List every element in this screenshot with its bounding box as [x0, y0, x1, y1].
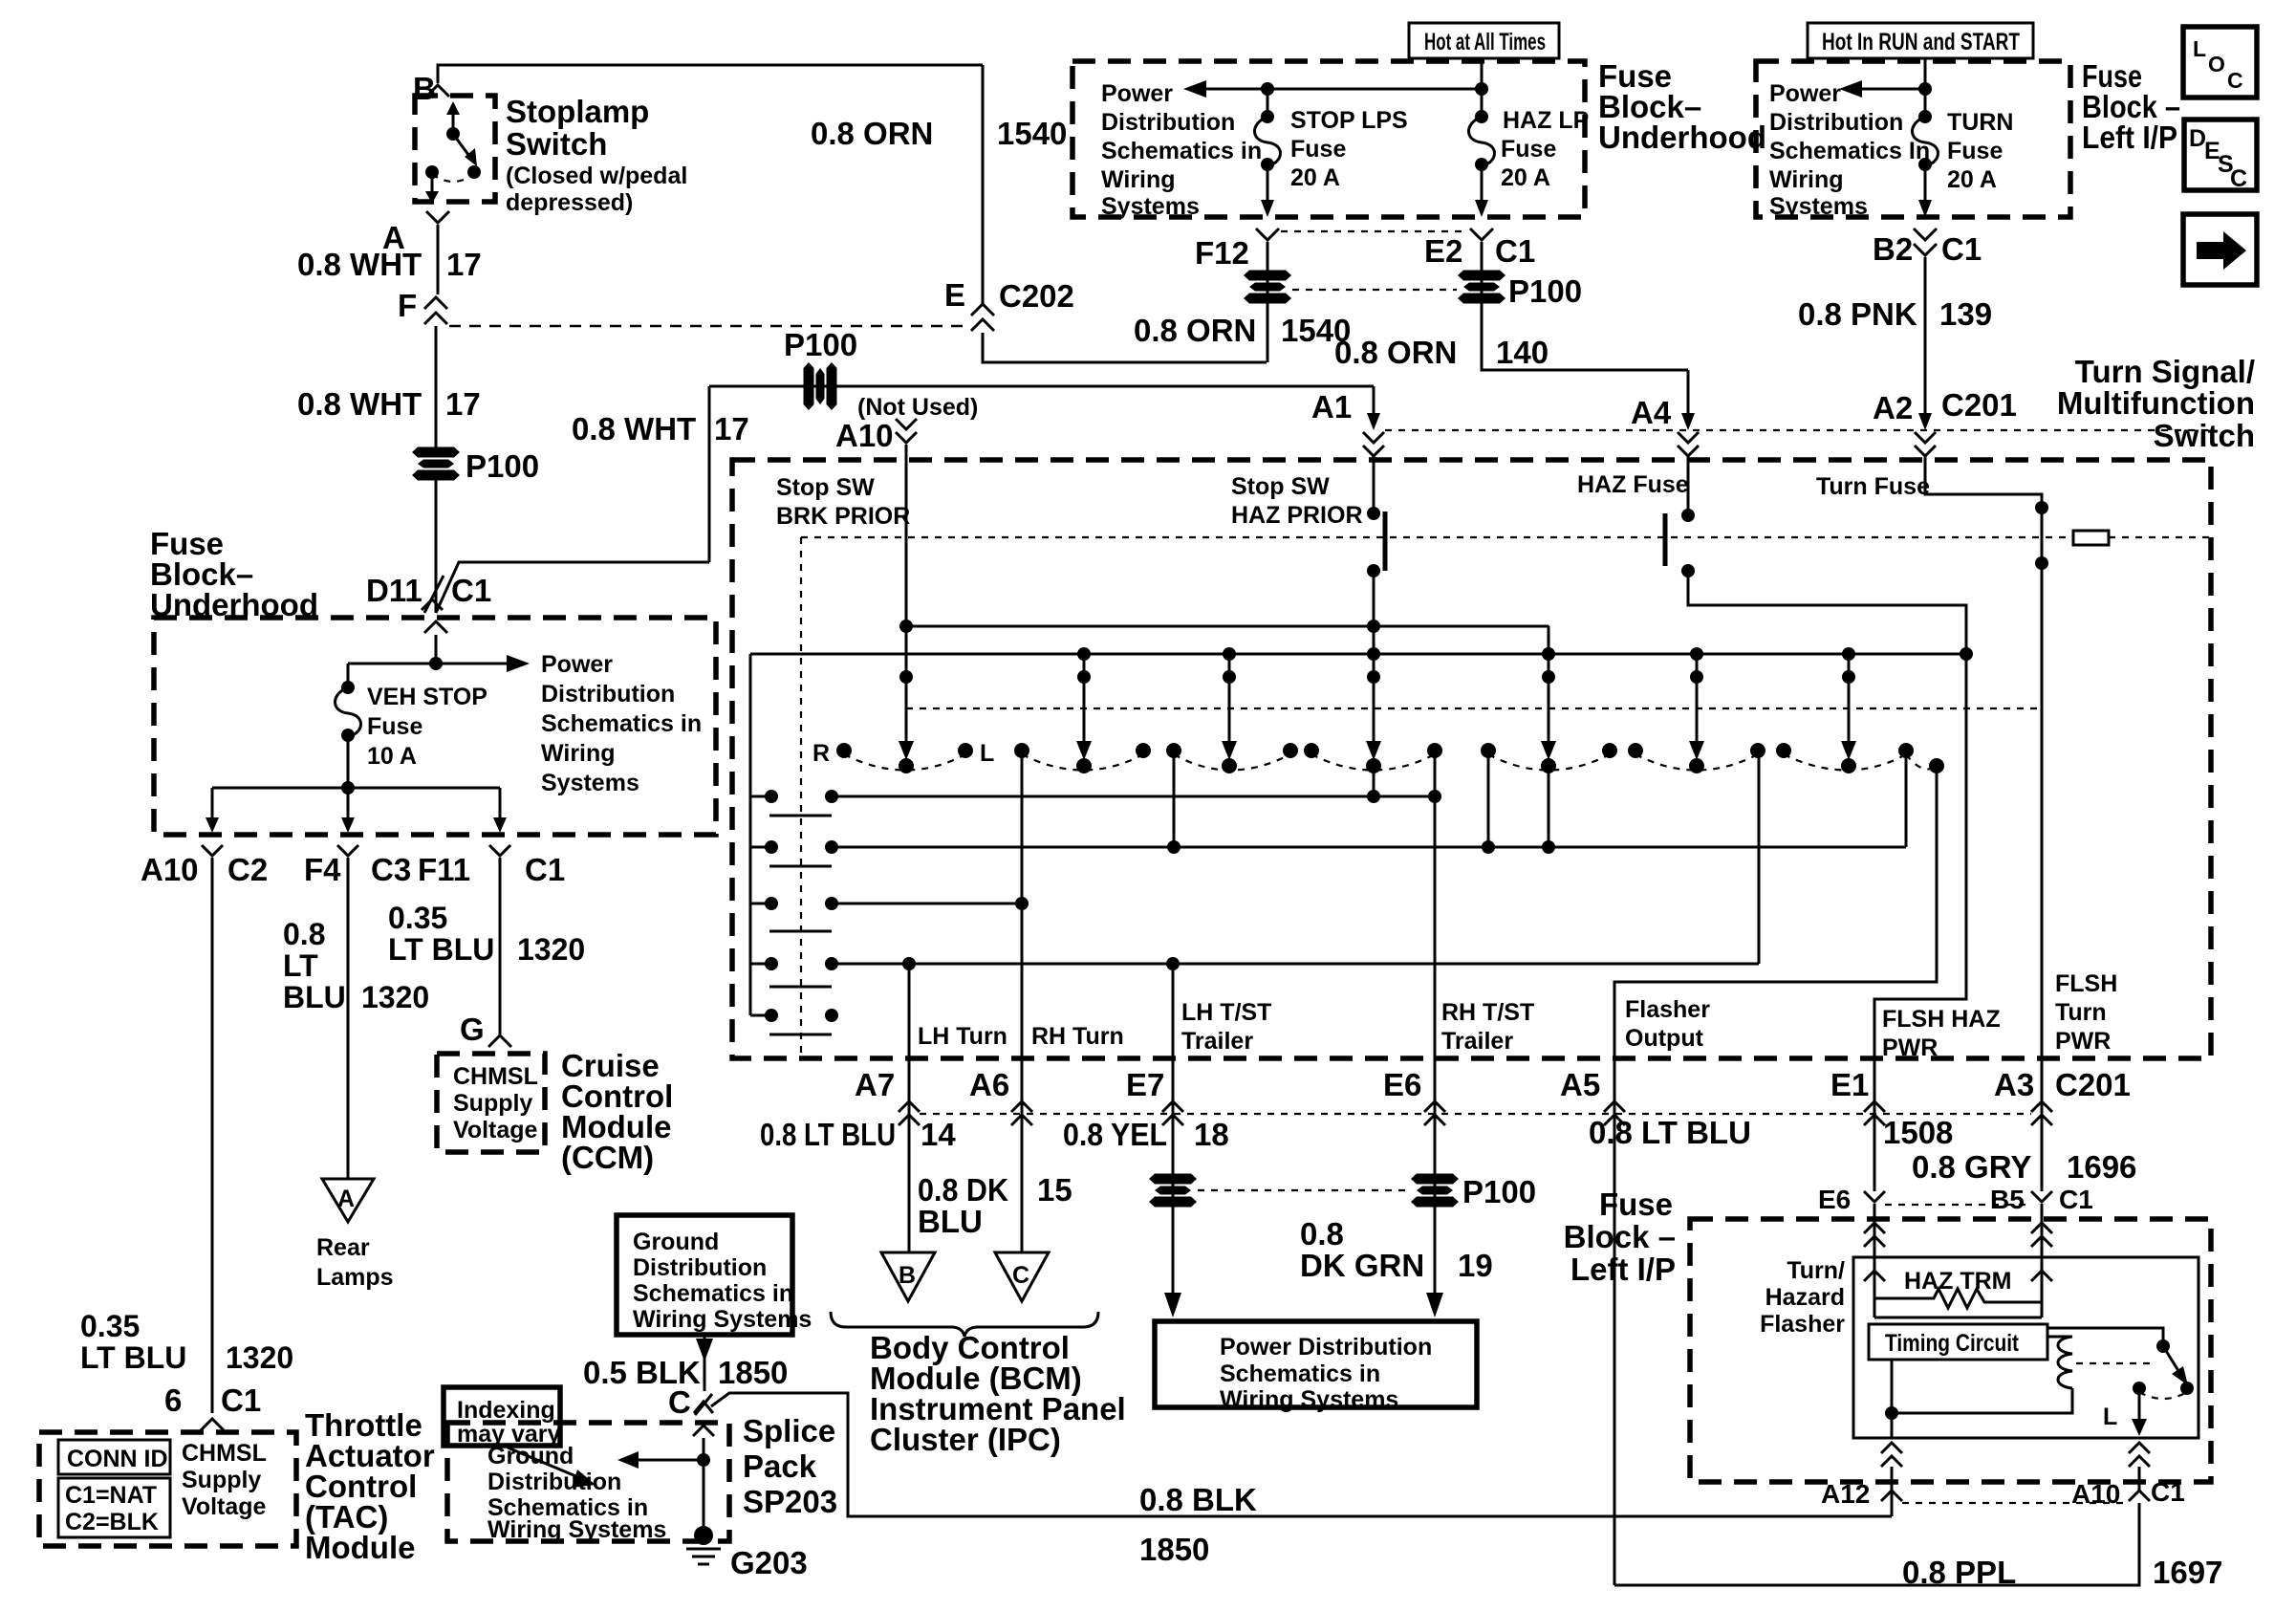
svg-text:Hazard: Hazard — [1765, 1284, 1845, 1311]
svg-text:18: 18 — [1194, 1117, 1229, 1152]
svg-text:15: 15 — [1037, 1172, 1072, 1208]
svg-text:Hot In RUN and START: Hot In RUN and START — [1822, 29, 2020, 55]
Hot at All Times box — [1409, 23, 1559, 58]
wafer left feed vertical — [749, 654, 752, 1015]
svg-text:Wiring Systems: Wiring Systems — [487, 1516, 666, 1543]
svg-text:P100: P100 — [784, 327, 857, 362]
fuse block left IP box (flasher) — [1690, 1219, 2211, 1482]
svg-text:P100: P100 — [1508, 273, 1582, 309]
indexing may vary box — [444, 1387, 560, 1446]
connector chevrons A10 switch — [896, 419, 917, 429]
svg-text:Distribution: Distribution — [1101, 109, 1235, 136]
triangle B — [881, 1252, 935, 1301]
wire E down and right to F12 leg — [983, 333, 1267, 362]
indexing arrow — [508, 1448, 585, 1480]
haz trm resistor — [1874, 1283, 2042, 1308]
flasher switch travel arc — [2139, 1392, 2187, 1399]
power distribution arrow (IP) — [1862, 88, 1925, 91]
connector A4 arrow and chevrons — [1681, 413, 1695, 430]
svg-text:FLSH: FLSH — [2055, 970, 2117, 997]
wafer row A stub and dots — [750, 795, 771, 798]
svg-text:HAZ Fuse: HAZ Fuse — [1577, 471, 1689, 498]
grommet P100 on stoplamp wire — [412, 447, 460, 481]
svg-text:C2: C2 — [227, 852, 268, 887]
riser contact to row D x=1840 — [1758, 751, 1761, 964]
svg-text:0.35: 0.35 — [80, 1309, 140, 1343]
wafer row D stub and dots — [750, 963, 771, 966]
svg-text:A2: A2 — [1873, 390, 1913, 425]
svg-text:0.8 YEL: 0.8 YEL — [1063, 1117, 1167, 1152]
svg-text:BLU: BLU — [283, 980, 346, 1014]
wire 0.8 BLK 1850 run — [711, 1393, 1892, 1516]
wire B vertical down to E — [982, 65, 985, 304]
stoplamp switch arm — [453, 134, 471, 159]
brace BCM — [831, 1312, 1098, 1337]
svg-text:Trailer: Trailer — [1181, 1028, 1253, 1055]
connector chevron F12 — [1256, 229, 1279, 240]
svg-text:Hot at All Times: Hot at All Times — [1424, 29, 1546, 55]
turn fuse actuator rect — [2073, 531, 2109, 545]
svg-text:C1: C1 — [1941, 231, 1982, 267]
svg-text:BRK PRIOR: BRK PRIOR — [776, 503, 910, 530]
svg-text:FLSH HAZ: FLSH HAZ — [1882, 1006, 2001, 1033]
splice wire down — [703, 1438, 705, 1530]
grommet P100 on branch wire — [804, 362, 837, 410]
junction dot turn fuse — [1918, 82, 1932, 96]
turn hazard flasher solid box — [1853, 1257, 2199, 1438]
svg-text:Schematics in: Schematics in — [1220, 1361, 1380, 1387]
svg-text:Schematics in: Schematics in — [1101, 138, 1262, 164]
riser contact to row B x=1228 — [1173, 751, 1176, 847]
svg-text:1320: 1320 — [226, 1340, 293, 1375]
svg-text:PWR: PWR — [1882, 1034, 1938, 1061]
forward arrow box — [2183, 214, 2257, 285]
TAC module dashed box — [39, 1432, 296, 1546]
svg-text:Power: Power — [541, 651, 613, 678]
haz fuse bar — [1663, 513, 1668, 566]
svg-text:depressed): depressed) — [506, 189, 633, 216]
contact arm arrow x=1934 — [1848, 654, 1851, 753]
svg-text:Switch: Switch — [506, 126, 607, 162]
svg-text:Fuse: Fuse — [1599, 1186, 1673, 1222]
svg-text:C: C — [2230, 165, 2247, 192]
svg-text:(Closed w/pedal: (Closed w/pedal — [506, 163, 687, 189]
connector C1 dashed (flasher bottom) — [1902, 1502, 2127, 1504]
svg-text:0.8 PNK: 0.8 PNK — [1798, 296, 1917, 332]
arrow dots y=708 — [899, 670, 913, 684]
svg-text:0.8 LT BLU: 0.8 LT BLU — [1589, 1115, 1751, 1150]
svg-text:E6: E6 — [1818, 1185, 1851, 1214]
power distribution reference box (bottom) — [1155, 1321, 1477, 1407]
junction dot haz lp — [1475, 82, 1488, 96]
wire A6 output from row C — [1021, 903, 1024, 1058]
TURN fuse — [1918, 110, 1932, 123]
svg-text:RH Turn: RH Turn — [1031, 1023, 1124, 1050]
connector chevrons F11 — [489, 845, 510, 856]
LOC box — [2183, 27, 2257, 98]
svg-text:6: 6 — [164, 1382, 182, 1418]
wire L leg to block edge — [2138, 1467, 2141, 1491]
svg-text:A10: A10 — [141, 852, 199, 887]
connector chevrons A7 — [908, 1058, 911, 1138]
svg-text:Indexing: Indexing — [457, 1397, 555, 1424]
Hot In RUN and START box — [1808, 23, 2033, 58]
svg-text:E1: E1 — [1830, 1067, 1869, 1102]
CONN ID box — [58, 1440, 170, 1474]
svg-text:Trailer: Trailer — [1441, 1028, 1513, 1055]
svg-text:0.8 DK: 0.8 DK — [918, 1172, 1008, 1208]
svg-text:Turn/: Turn/ — [1787, 1257, 1845, 1284]
wire timing to switch pivot — [2047, 1328, 2163, 1342]
svg-text:BLU: BLU — [918, 1204, 983, 1239]
svg-text:A10: A10 — [835, 418, 894, 453]
wire A5 down to PPL run — [1614, 1138, 1616, 1585]
svg-text:C1: C1 — [451, 573, 491, 608]
coil — [2047, 1337, 2072, 1388]
stationary contact dots — [836, 743, 852, 758]
svg-text:0.8 BLK: 0.8 BLK — [1139, 1482, 1257, 1517]
svg-text:F: F — [398, 288, 417, 323]
wire B5 into flasher — [2041, 1204, 2044, 1298]
mechanical dashed coil to switch — [2076, 1362, 2153, 1364]
svg-text:LH T/ST: LH T/ST — [1181, 999, 1271, 1026]
svg-text:Block –: Block – — [1564, 1219, 1676, 1254]
chevron E6 at flasher box top — [1864, 1271, 1885, 1281]
svg-text:1850: 1850 — [1139, 1532, 1209, 1567]
connector F chevrons — [424, 297, 447, 309]
svg-text:C: C — [668, 1384, 691, 1420]
svg-text:0.8 ORN: 0.8 ORN — [1334, 335, 1457, 370]
svg-text:A7: A7 — [855, 1067, 895, 1102]
connector chevron B — [426, 85, 449, 97]
svg-text:Left I/P: Left I/P — [2082, 120, 2177, 155]
arrow E7 into power dist — [1164, 1293, 1181, 1317]
svg-text:B2: B2 — [1873, 231, 1913, 267]
connector chevron B2 — [1914, 229, 1937, 240]
ground distribution reference box (solid) — [617, 1215, 792, 1335]
chevrons B5 inside block — [2031, 1223, 2052, 1233]
svg-text:LT: LT — [283, 948, 318, 983]
connector chevron E2 — [1470, 229, 1493, 240]
wire 0.8 PPL 1697 — [1614, 1503, 2139, 1585]
svg-text:1320: 1320 — [361, 980, 429, 1014]
svg-text:A6: A6 — [969, 1067, 1009, 1102]
svg-text:C1: C1 — [2151, 1477, 2185, 1507]
svg-text:1508: 1508 — [1883, 1115, 1953, 1150]
svg-text:L: L — [980, 740, 994, 767]
svg-text:L: L — [2193, 36, 2206, 61]
svg-text:E: E — [944, 277, 965, 313]
wire A3 down to flasher B5 — [2041, 1138, 2044, 1191]
svg-text:Lamps: Lamps — [316, 1264, 394, 1291]
grommet dashed link — [1292, 289, 1457, 291]
mechanical dashed vertical (wafer) — [800, 537, 802, 1056]
riser contact to row A x=1501 and down to E6 — [1434, 751, 1437, 796]
wire A12 leg to block edge — [1891, 1467, 1894, 1516]
connector chevrons F4 — [337, 845, 358, 856]
svg-text:Rear: Rear — [316, 1234, 370, 1261]
connector chevrons A5 — [1614, 1058, 1616, 1138]
svg-text:RH T/ST: RH T/ST — [1441, 999, 1534, 1026]
line1 brk prior to contact arm — [906, 625, 1549, 628]
grommet P100 on E7 wire — [1149, 1174, 1197, 1208]
timing circuit box — [1869, 1324, 2047, 1360]
junction dot at F4 feed — [341, 781, 355, 795]
connector chevrons A3 — [2041, 1058, 2044, 1138]
svg-text:Power: Power — [1101, 80, 1173, 107]
connector C symbol — [695, 1394, 712, 1415]
svg-text:LT BLU: LT BLU — [388, 932, 494, 967]
stoplamp switch exit arrow — [431, 172, 434, 194]
connector chevron TAC — [201, 1419, 224, 1430]
wire stoplamp branch horizontal y=404 — [709, 385, 1374, 388]
wire to power distribution arrow — [348, 663, 507, 665]
svg-text:Output: Output — [1625, 1025, 1704, 1052]
svg-text:1697: 1697 — [2153, 1555, 2222, 1590]
svg-text:Stoplamp: Stoplamp — [506, 94, 649, 129]
STOP LPS fuse — [1267, 89, 1269, 115]
svg-text:Supply: Supply — [182, 1467, 261, 1493]
svg-text:19: 19 — [1458, 1248, 1493, 1283]
svg-text:Distribution: Distribution — [487, 1469, 621, 1495]
svg-text:E2: E2 — [1424, 233, 1462, 269]
connector chevrons E7 — [1172, 1058, 1175, 1138]
connector chevrons E6 — [1434, 1058, 1437, 1138]
connector chevron E6 flasher — [1864, 1191, 1885, 1202]
wire E2 down to A4 — [1482, 242, 1688, 370]
svg-text:0.8 ORN: 0.8 ORN — [1134, 313, 1256, 348]
riser contact to row B x=1557 — [1487, 751, 1490, 847]
svg-text:Module: Module — [305, 1530, 415, 1565]
svg-text:14: 14 — [921, 1117, 956, 1152]
svg-text:A4: A4 — [1631, 395, 1672, 430]
svg-text:C1: C1 — [525, 852, 565, 887]
svg-text:TURN: TURN — [1947, 109, 2013, 136]
svg-text:HAZ LP: HAZ LP — [1503, 107, 1589, 134]
svg-text:Wiring: Wiring — [541, 740, 616, 767]
wire E7 down — [1172, 1138, 1175, 1300]
wire A10 into switch — [905, 445, 908, 753]
travel arcs dashed — [844, 754, 965, 771]
arrow A10-C2 leg — [211, 788, 214, 820]
svg-text:E6: E6 — [1383, 1067, 1421, 1102]
row C line — [832, 903, 1022, 905]
connector chevrons E1 — [1874, 1058, 1876, 1138]
svg-text:Flasher: Flasher — [1625, 996, 1710, 1023]
svg-text:D11: D11 — [366, 573, 422, 608]
stoplamp switch up arrow — [452, 111, 455, 134]
wire A1 into switch — [1373, 386, 1375, 413]
svg-text:Fuse: Fuse — [1947, 138, 2003, 164]
svg-text:Turn Fuse: Turn Fuse — [1816, 473, 1930, 500]
turn fuse wire down (A3 leg) — [2041, 508, 2044, 1058]
svg-text:10 A: 10 A — [367, 743, 417, 770]
stop sw haz prior offset bar — [1383, 512, 1388, 571]
connector A1 arrow and chevrons — [1367, 413, 1380, 430]
DESC box — [2184, 120, 2257, 190]
flasher internal bus — [1874, 1317, 2042, 1319]
wire A4 into switch — [1687, 370, 1690, 413]
svg-text:B5: B5 — [1990, 1185, 2025, 1214]
triangle C — [995, 1252, 1049, 1301]
chevron below C into splice box — [693, 1426, 714, 1436]
svg-text:CHMSL: CHMSL — [453, 1063, 538, 1090]
svg-text:Schematics in: Schematics in — [541, 710, 702, 737]
connector chevron below D11 — [424, 621, 447, 633]
svg-text:Distribution: Distribution — [1769, 109, 1903, 136]
connector C1 dashed (flasher) — [1885, 1204, 2031, 1206]
svg-text:Voltage: Voltage — [453, 1117, 538, 1143]
svg-text:A12: A12 — [1821, 1479, 1870, 1509]
svg-text:A5: A5 — [1560, 1067, 1600, 1102]
svg-text:Underhood: Underhood — [1598, 120, 1766, 155]
svg-text:139: 139 — [1939, 296, 1992, 332]
fuse block left IP box (top) — [1756, 61, 2070, 217]
connector chevrons A6 — [1021, 1058, 1024, 1138]
svg-text:0.8 WHT: 0.8 WHT — [297, 247, 422, 282]
wire A7 output from row D — [908, 964, 911, 1058]
turn fuse contact dots — [2035, 501, 2048, 514]
HAZ LP fuse — [1481, 89, 1484, 115]
grommet P100 on E6 wire — [1411, 1174, 1459, 1208]
wire P100 down to D11 — [435, 478, 438, 613]
svg-text:Turn: Turn — [2055, 999, 2107, 1026]
wafer row C stub and dots — [750, 903, 771, 905]
svg-text:CHMSL: CHMSL — [182, 1440, 267, 1467]
svg-text:(Not Used): (Not Used) — [857, 394, 978, 421]
svg-text:1696: 1696 — [2067, 1149, 2136, 1185]
wire A5 flasher output riser — [1614, 766, 1937, 1058]
svg-text:P100: P100 — [1462, 1174, 1536, 1209]
svg-text:Cluster (IPC): Cluster (IPC) — [870, 1422, 1061, 1457]
fuse block underhood box (top) — [1072, 61, 1585, 217]
svg-text:HAZ PRIOR: HAZ PRIOR — [1231, 502, 1363, 529]
wire E7 output from row D — [1172, 964, 1175, 1058]
VEH STOP fuse — [347, 664, 350, 683]
connector C1 dashed (underhood) — [1281, 230, 1466, 232]
svg-text:Stop SW: Stop SW — [776, 474, 875, 501]
svg-text:Stop SW: Stop SW — [1231, 473, 1330, 500]
svg-text:20 A: 20 A — [1290, 164, 1340, 191]
flasher switch pivot dot — [2156, 1339, 2170, 1353]
svg-text:0.8 ORN: 0.8 ORN — [811, 116, 933, 151]
connector A2 arrow and chevrons — [1918, 413, 1932, 430]
distribution bus inside fuse block — [212, 787, 500, 790]
svg-text:Multifunction: Multifunction — [2057, 385, 2255, 421]
svg-text:C3: C3 — [371, 852, 411, 887]
svg-text:C2=BLK: C2=BLK — [65, 1509, 159, 1535]
wire B2 down to A2 — [1924, 257, 1927, 419]
svg-text:C1=NAT: C1=NAT — [65, 1482, 157, 1509]
grommet dashed link bottom — [1198, 1189, 1410, 1191]
contact arm arrow x=1134 — [1083, 654, 1086, 753]
wire from ground ref box — [704, 1335, 706, 1391]
splice branch arrow left — [635, 1459, 704, 1462]
svg-text:Supply: Supply — [453, 1090, 532, 1117]
svg-text:P100: P100 — [466, 448, 539, 484]
svg-text:17: 17 — [445, 386, 481, 422]
splice pack dashed box — [447, 1423, 729, 1541]
wire A to F — [437, 225, 440, 294]
connector D11 symbol — [424, 576, 444, 613]
wire E6 output from row A — [1434, 796, 1437, 1058]
C1=NAT C2=BLK box — [58, 1478, 170, 1537]
svg-text:G203: G203 — [730, 1545, 808, 1580]
svg-text:Underhood: Underhood — [150, 587, 318, 622]
moving contact x=1437 to row A — [1373, 766, 1375, 796]
flasher switch contact dot right — [2180, 1382, 2194, 1395]
wafer row E stub and dots — [750, 1014, 771, 1017]
svg-text:STOP LPS: STOP LPS — [1290, 107, 1408, 134]
riser contact to row B x=1994 — [1905, 751, 1908, 847]
contact arm arrow x=1437 — [1366, 741, 1381, 760]
row A line — [832, 795, 1435, 798]
stoplamp switch contact dot left — [425, 165, 439, 179]
svg-text:Systems: Systems — [1101, 193, 1200, 220]
chevrons L below flasher box — [2129, 1443, 2150, 1453]
mechanical dashed link (lower) — [906, 708, 2040, 709]
stoplamp switch contact dot right — [467, 165, 481, 179]
svg-text:PWR: PWR — [2055, 1028, 2111, 1055]
stoplamp switch dashed travel arc — [432, 174, 474, 182]
svg-text:C1: C1 — [1495, 233, 1535, 269]
svg-text:17: 17 — [714, 411, 749, 446]
feed wire from hot box — [1481, 58, 1484, 115]
connector chevron G — [488, 1035, 511, 1047]
svg-text:LH Turn: LH Turn — [918, 1023, 1007, 1050]
svg-text:Ground: Ground — [633, 1229, 719, 1255]
contact arm arrow x=1620 — [1548, 626, 1550, 753]
connector E chevrons — [971, 304, 994, 316]
contact arm arrow x=948 — [899, 741, 914, 760]
junction dot splice — [697, 1453, 710, 1467]
svg-text:VEH STOP: VEH STOP — [367, 684, 487, 710]
wire A6 to BCM — [1021, 1138, 1024, 1252]
stoplamp switch arm pivot dot — [446, 127, 460, 141]
svg-text:CONN ID: CONN ID — [67, 1446, 168, 1472]
fuse block underhood box (left) — [154, 618, 716, 835]
timing circuit ground leg — [1892, 1360, 2072, 1413]
svg-text:Distribution: Distribution — [541, 681, 675, 708]
wire F down to P100 — [435, 326, 438, 447]
svg-text:Wiring Systems: Wiring Systems — [633, 1306, 812, 1333]
svg-text:Left I/P: Left I/P — [1570, 1252, 1676, 1287]
svg-text:Systems: Systems — [1769, 193, 1868, 220]
wire A10/C2 down to TAC — [211, 858, 214, 1413]
junction dot stop lps — [1261, 82, 1274, 96]
svg-text:Fuse: Fuse — [367, 713, 422, 740]
svg-text:C: C — [1012, 1262, 1029, 1289]
svg-text:Systems: Systems — [541, 770, 639, 796]
svg-text:A3: A3 — [1994, 1067, 2034, 1102]
wire branch vertical x=742 — [708, 386, 711, 562]
svg-text:Pack: Pack — [743, 1448, 817, 1484]
riser L contact to row C (A6 feed) — [1021, 751, 1024, 903]
svg-text:SP203: SP203 — [743, 1484, 837, 1519]
svg-text:C1: C1 — [2059, 1185, 2093, 1214]
svg-text:G: G — [460, 1012, 485, 1047]
junction dot flasher ground leg — [1885, 1406, 1898, 1420]
row B line — [832, 846, 1906, 849]
svg-text:C1: C1 — [221, 1382, 261, 1418]
svg-text:R: R — [812, 740, 830, 767]
svg-text:(CCM): (CCM) — [561, 1140, 654, 1175]
connector C202 dashed line — [449, 325, 967, 328]
wire branch to D11 — [436, 562, 709, 613]
chevrons A12 below flasher box — [1881, 1443, 1902, 1453]
wire A1 below haz prior switch — [1373, 571, 1375, 753]
svg-text:0.8 LT BLU: 0.8 LT BLU — [760, 1117, 896, 1152]
